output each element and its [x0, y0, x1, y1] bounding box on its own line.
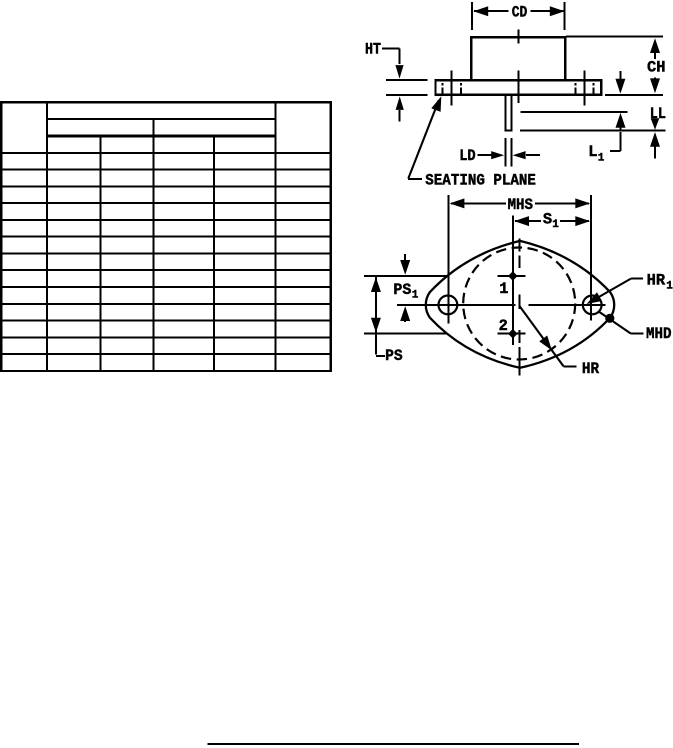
flange extension stubs left	[386, 79, 428, 81]
left mounting hole	[439, 296, 458, 315]
svg-text:1: 1	[552, 219, 559, 231]
lead (side view)	[504, 95, 506, 131]
dim HT lower arrow	[396, 96, 404, 110]
table outer border	[1, 102, 331, 371]
svg-text:L: L	[588, 143, 597, 161]
MHD leader	[599, 312, 631, 334]
dim L1 upper arrow	[619, 71, 621, 81]
pin 1 line	[364, 275, 447, 277]
dim LL arrows	[651, 118, 660, 130]
lead edge extension dashes	[504, 138, 506, 166]
dim LD arrows	[478, 154, 496, 156]
pin 1 dot	[508, 271, 518, 281]
lead line A (L1 level)	[520, 111, 627, 113]
dim L1 lower arrow	[616, 113, 626, 128]
bottom horizontal rule	[208, 743, 580, 745]
svg-text:1: 1	[598, 153, 605, 165]
table column lines	[46, 102, 48, 371]
L1 bracket	[619, 132, 621, 151]
dim MHS extension lines	[447, 195, 449, 250]
svg-text:MHS: MHS	[508, 196, 533, 214]
flange (side view)	[436, 80, 602, 95]
svg-text:HR: HR	[647, 272, 666, 290]
hole axis centerline	[397, 304, 516, 306]
svg-text:SEATING PLANE: SEATING PLANE	[425, 172, 536, 190]
svg-text:PS: PS	[385, 347, 403, 365]
svg-text:CD: CD	[512, 4, 528, 22]
dim MHS line+arrows	[451, 202, 506, 204]
right mounting hole	[583, 296, 602, 315]
left hole centerline (side)	[451, 71, 453, 106]
left hole edges (side)	[441, 83, 443, 86]
svg-text:1: 1	[499, 280, 508, 298]
flange centre tick	[517, 71, 519, 104]
svg-text:S: S	[543, 211, 552, 229]
HR leader	[520, 306, 564, 366]
dim HT upper arrow	[395, 65, 403, 79]
seating plane leader	[408, 100, 439, 178]
svg-text:LD: LD	[459, 147, 476, 165]
svg-text:2: 2	[499, 317, 508, 335]
dim CD extension lines	[471, 2, 473, 30]
pin 2 line	[364, 333, 447, 335]
dim PS line+arrows	[375, 277, 377, 333]
dim S1 line+arrows	[515, 220, 541, 222]
table row lines (13 data rows)	[0, 169, 332, 171]
can top centre tick	[517, 30, 519, 44]
table header bottom line	[0, 152, 332, 154]
can outline dashed circle	[463, 248, 575, 360]
HR1 leader	[589, 279, 631, 303]
svg-text:CH: CH	[647, 59, 665, 77]
table header line under top span (cols 2-5)	[47, 118, 276, 120]
package vertical centerline	[518, 239, 520, 252]
svg-text:1: 1	[412, 289, 419, 301]
svg-text:HR: HR	[582, 360, 600, 378]
PS bracket	[375, 334, 377, 355]
hole centerlines vertical	[447, 250, 449, 324]
right hole edges (side)	[574, 83, 576, 86]
svg-text:PS: PS	[393, 281, 411, 299]
can body (top view rect)	[471, 37, 565, 80]
pin 2 dot	[508, 329, 518, 339]
dim HT leader	[382, 47, 400, 49]
can top extension line right	[566, 36, 663, 38]
svg-text:1: 1	[666, 281, 673, 293]
svg-text:MHD: MHD	[646, 325, 672, 343]
dim CH arrows	[650, 38, 660, 53]
svg-text:HT: HT	[365, 41, 381, 59]
table thick line under sub-span row (cols 2-5)	[47, 134, 276, 137]
dim CD line+arrows	[474, 10, 509, 12]
dim PS1 arrows	[404, 254, 406, 263]
right hole centerline (side)	[584, 71, 586, 106]
seating plane extension right	[605, 94, 663, 96]
lead axis line (S1 tick + through pins)	[512, 216, 514, 346]
table sub-header divider row2	[153, 119, 155, 136]
lead tip line B (LL level)	[520, 129, 665, 131]
flange outline (bottom view)	[426, 241, 614, 368]
